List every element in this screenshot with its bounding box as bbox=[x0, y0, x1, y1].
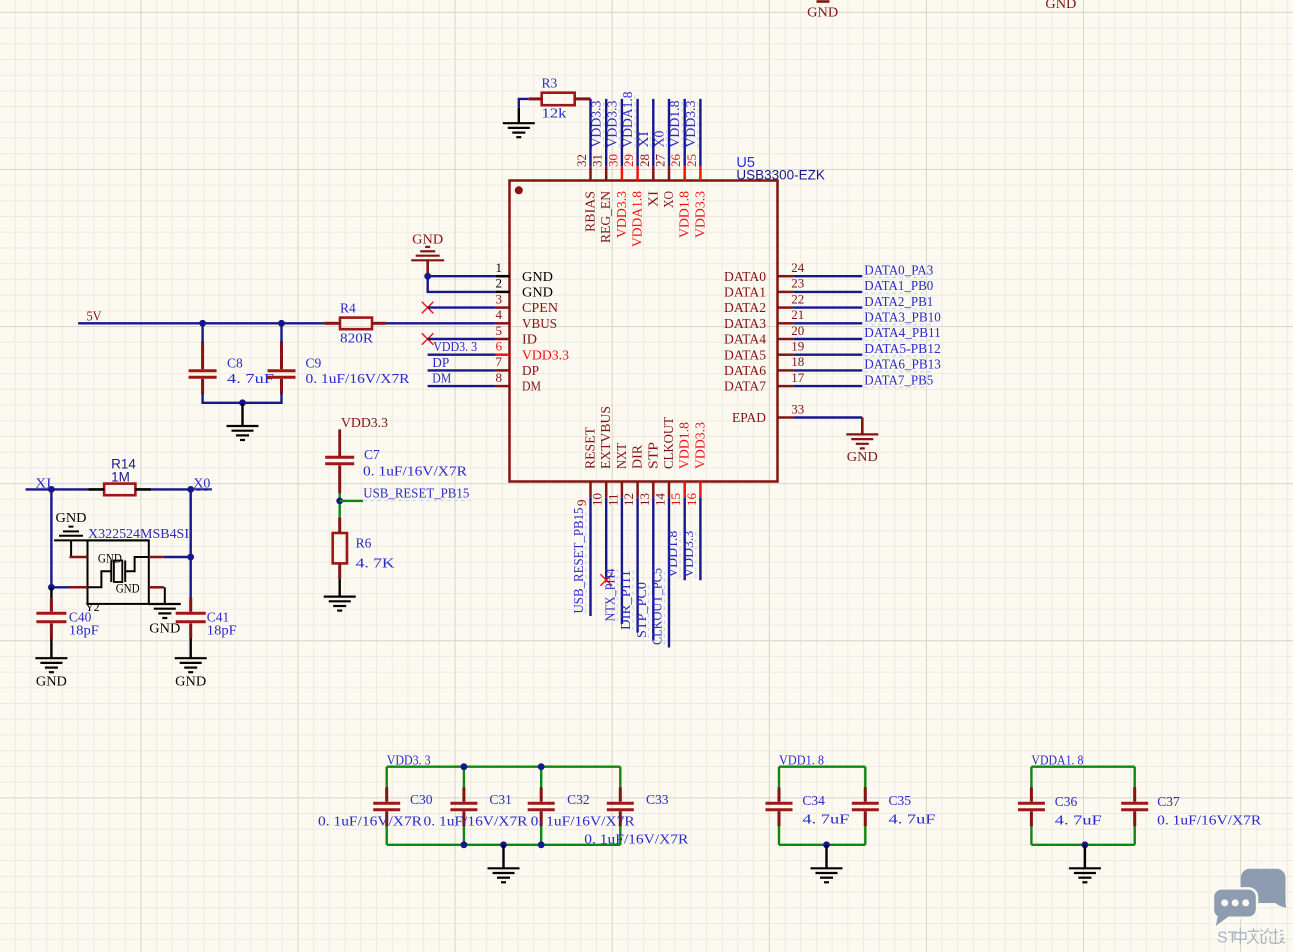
pin 28 (XI) top stub bbox=[652, 166, 655, 180]
wire VDD1.8 bank top rail (green) bbox=[779, 766, 865, 768]
svg-text:C37: C37 bbox=[1157, 794, 1180, 809]
svg-text:26: 26 bbox=[668, 154, 683, 168]
svg-text:DATA2_PB1: DATA2_PB1 bbox=[864, 294, 933, 309]
svg-text:DATA4_PB11: DATA4_PB11 bbox=[864, 325, 941, 340]
wire R4 to VBUS pin bbox=[386, 322, 496, 324]
resistor R14 bbox=[88, 484, 151, 496]
pin 16 (VDD3.3) bottom stub bbox=[699, 482, 702, 498]
svg-text:STP: STP bbox=[645, 442, 660, 469]
wire DATA5-PB12 bbox=[793, 354, 862, 356]
junction node USB_RESET_PB15 bbox=[336, 498, 343, 505]
svg-text:VDD1.8: VDD1.8 bbox=[665, 531, 680, 578]
svg-text:25: 25 bbox=[684, 154, 699, 167]
capacitor C8 bbox=[189, 342, 217, 395]
wire cap drop (green) bbox=[1030, 767, 1032, 788]
junction node ground rail bbox=[239, 399, 246, 406]
capacitor C41 bbox=[176, 598, 206, 639]
svg-text:1: 1 bbox=[496, 260, 503, 275]
svg-text:GND: GND bbox=[175, 673, 206, 688]
wire cap drop (green) bbox=[619, 767, 621, 788]
svg-text:VDD3.3: VDD3.3 bbox=[692, 422, 707, 469]
svg-text:2: 2 bbox=[496, 276, 503, 291]
svg-text:GND: GND bbox=[522, 270, 553, 285]
crystal Y2 X322524MSB4SI bbox=[54, 540, 164, 604]
pin 14 (CLKOUT) bottom stub bbox=[668, 482, 671, 498]
svg-text:12k: 12k bbox=[542, 106, 567, 121]
svg-text:DATA0_PA3: DATA0_PA3 bbox=[864, 262, 933, 277]
wire crystal case to ground (black) bbox=[164, 587, 166, 604]
capacitor C37 bbox=[1121, 787, 1148, 826]
wire ground stem (black) bbox=[241, 403, 243, 426]
svg-text:3: 3 bbox=[496, 291, 503, 306]
svg-text:6: 6 bbox=[496, 339, 503, 354]
svg-text:GND: GND bbox=[98, 552, 122, 566]
svg-text:17: 17 bbox=[791, 370, 805, 385]
no-connect X on pin 3 bbox=[422, 302, 434, 314]
svg-text:DIR_PI11: DIR_PI11 bbox=[618, 570, 633, 630]
resistor R4 bbox=[324, 318, 386, 330]
svg-text:XI: XI bbox=[645, 190, 660, 207]
capacitor C31 bbox=[450, 787, 477, 826]
pin 19 (DATA5) right stub bbox=[778, 353, 794, 356]
svg-text:5: 5 bbox=[496, 323, 503, 338]
ground power port GND (top, cut off) bbox=[807, 2, 838, 20]
ground below C41 bbox=[175, 658, 207, 672]
capacitor C30 bbox=[373, 787, 400, 826]
ground below C8 C9 bbox=[227, 426, 259, 440]
wire EPAD to ground bbox=[793, 416, 862, 418]
svg-text:DATA3_PB10: DATA3_PB10 bbox=[864, 310, 941, 325]
wire XI bbox=[26, 488, 89, 490]
pin 15 (VDD1.8) bottom stub bbox=[683, 482, 686, 498]
wire pin 29 vertical bbox=[636, 99, 638, 166]
junction node XI bbox=[48, 486, 55, 493]
ground VDD3.3 bank bank bbox=[488, 868, 520, 882]
capacitor C33 bbox=[607, 787, 634, 826]
svg-text:5V: 5V bbox=[87, 308, 102, 323]
ground below R6 bbox=[324, 597, 356, 611]
svg-text:4. 7K: 4. 7K bbox=[356, 556, 395, 571]
junction node XI bottom bbox=[48, 584, 55, 591]
wire DATA7_PB5 bbox=[793, 385, 862, 387]
svg-text:DATA6_PB13: DATA6_PB13 bbox=[864, 357, 941, 372]
wire XO vertical bbox=[189, 489, 191, 597]
svg-text:C9: C9 bbox=[306, 355, 322, 370]
wire XI vertical bbox=[50, 489, 52, 587]
wire CPEN pin 3 bbox=[428, 306, 496, 308]
capacitor C9 bbox=[268, 342, 296, 395]
svg-text:14: 14 bbox=[653, 493, 668, 507]
svg-text:24: 24 bbox=[791, 260, 805, 275]
svg-text:DATA3: DATA3 bbox=[724, 317, 766, 332]
svg-text:0. 1uF/16V/X7R: 0. 1uF/16V/X7R bbox=[424, 814, 528, 829]
pin 13 (STP) bottom stub bbox=[652, 482, 655, 498]
pin 3 (CPEN) left stub bbox=[496, 306, 510, 309]
wire 5V to C9 bbox=[280, 323, 282, 342]
junction node bottom rail bbox=[823, 841, 830, 848]
svg-text:DATA7_PB5: DATA7_PB5 bbox=[864, 372, 933, 387]
svg-text:GND: GND bbox=[116, 581, 140, 595]
capacitor C36 bbox=[1018, 787, 1045, 826]
svg-text:DATA5: DATA5 bbox=[724, 348, 766, 363]
svg-text:CPEN: CPEN bbox=[522, 301, 558, 316]
svg-text:11: 11 bbox=[605, 493, 620, 506]
wire pin 13 vertical bbox=[652, 497, 654, 640]
wire cap drop (green) bbox=[778, 767, 780, 788]
junction node bottom rail bbox=[461, 841, 468, 848]
wire C40 to ground (black) bbox=[50, 639, 52, 659]
wire 5V rail bbox=[78, 322, 324, 324]
pin 11 (NXT) bottom stub bbox=[621, 482, 624, 498]
wire ground drop (black) bbox=[518, 108, 520, 123]
wire EPAD ground drop bbox=[861, 418, 864, 435]
svg-text:DATA6: DATA6 bbox=[724, 364, 766, 379]
wire pin 10 vertical bbox=[605, 497, 607, 580]
wire DATA1_PB0 bbox=[793, 291, 862, 293]
svg-text:C36: C36 bbox=[1055, 794, 1078, 809]
svg-text:GND: GND bbox=[56, 510, 87, 525]
svg-text:23: 23 bbox=[791, 276, 804, 291]
wire VDDA1.8 bank ground stem (black) bbox=[1084, 845, 1086, 869]
svg-text:NXT: NXT bbox=[614, 442, 629, 469]
svg-text:VBUS: VBUS bbox=[522, 317, 557, 332]
svg-text:ID: ID bbox=[522, 333, 537, 348]
capacitor C7 bbox=[325, 457, 354, 493]
power port VDD3.3 bbox=[340, 415, 389, 456]
wire cap drop (green) bbox=[463, 767, 465, 788]
ground VDD1.8 bank bank bbox=[811, 868, 843, 882]
svg-text:18pF: 18pF bbox=[69, 622, 100, 637]
wire DATA6_PB13 bbox=[793, 369, 862, 371]
svg-text:USB_RESET_PB15: USB_RESET_PB15 bbox=[571, 507, 586, 613]
svg-text:DATA4: DATA4 bbox=[724, 333, 766, 348]
pin 33 (EPAD) stub bbox=[778, 416, 794, 419]
wire pin 25 vertical bbox=[699, 99, 701, 166]
svg-text:VDD3.3: VDD3.3 bbox=[522, 348, 569, 363]
svg-text:VDDA1.8: VDDA1.8 bbox=[630, 191, 645, 247]
svg-text:DATA1: DATA1 bbox=[724, 286, 766, 301]
junction node top rail bbox=[538, 763, 545, 770]
wire pin 28 vertical bbox=[652, 99, 654, 166]
svg-text:X0: X0 bbox=[652, 130, 667, 147]
svg-text:C7: C7 bbox=[364, 447, 380, 462]
pin 9 (RESET) bottom stub bbox=[589, 482, 592, 498]
svg-text:DATA1_PB0: DATA1_PB0 bbox=[864, 278, 933, 293]
svg-text:RESET: RESET bbox=[583, 426, 598, 469]
svg-text:1M: 1M bbox=[111, 469, 130, 484]
wire to pin 1 bbox=[428, 275, 496, 277]
wire VDD3.3 pin 6 bbox=[428, 354, 496, 356]
svg-text:18: 18 bbox=[791, 354, 804, 369]
svg-text:VDD3. 3: VDD3. 3 bbox=[387, 752, 431, 767]
wire ID pin 5 bbox=[428, 338, 496, 340]
svg-text:C35: C35 bbox=[889, 793, 912, 808]
svg-text:33: 33 bbox=[791, 401, 804, 416]
svg-text:R4: R4 bbox=[340, 300, 356, 315]
svg-text:4. 7uF: 4. 7uF bbox=[889, 812, 937, 827]
wire C8 C9 ground rail bbox=[203, 393, 282, 403]
wire cap drop (green) bbox=[540, 767, 542, 788]
pin 2 (GND) left stub bbox=[496, 291, 510, 294]
wire USB_RESET_PB15 (green) bbox=[339, 493, 341, 517]
svg-text:19: 19 bbox=[791, 339, 804, 354]
junction node XO crystal bbox=[187, 554, 194, 561]
svg-text:8: 8 bbox=[496, 370, 503, 385]
svg-text:STP_PC0: STP_PC0 bbox=[634, 582, 649, 638]
svg-text:X322524MSB4SI: X322524MSB4SI bbox=[88, 526, 190, 541]
svg-text:9: 9 bbox=[574, 500, 589, 507]
svg-text:DM: DM bbox=[522, 380, 541, 395]
svg-text:VDDA1.8: VDDA1.8 bbox=[620, 91, 635, 147]
svg-text:31: 31 bbox=[590, 154, 605, 167]
svg-text:USB_RESET_PB15: USB_RESET_PB15 bbox=[363, 485, 469, 500]
capacitor C35 bbox=[852, 787, 879, 826]
pin 18 (DATA6) right stub bbox=[778, 369, 794, 372]
junction node bottom rail bbox=[1082, 841, 1089, 848]
no-connect X on pin 10 bbox=[600, 574, 612, 586]
junction node at C8 bbox=[199, 320, 206, 327]
wire C41 to ground (black) bbox=[189, 639, 191, 659]
svg-text:DIR: DIR bbox=[630, 445, 645, 469]
svg-text:VDD1. 8: VDD1. 8 bbox=[779, 752, 824, 767]
svg-text:C33: C33 bbox=[646, 792, 669, 807]
svg-text:0. 1uF/16V/X7R: 0. 1uF/16V/X7R bbox=[306, 371, 410, 386]
svg-text:0. 1uF/16V/X7R: 0. 1uF/16V/X7R bbox=[318, 814, 422, 829]
wire pin 11 vertical bbox=[621, 497, 623, 624]
wire XI to crystal bbox=[51, 586, 69, 588]
wire pin 26 vertical bbox=[684, 99, 686, 166]
svg-text:13: 13 bbox=[637, 493, 652, 506]
svg-text:XO: XO bbox=[661, 191, 676, 208]
svg-text:32: 32 bbox=[574, 154, 589, 167]
svg-text:VDD3.3: VDD3.3 bbox=[681, 531, 696, 578]
svg-text:30: 30 bbox=[605, 154, 620, 167]
svg-text:NTX_PH4: NTX_PH4 bbox=[602, 568, 617, 621]
svg-text:20: 20 bbox=[791, 323, 804, 338]
ground VDDA1.8 bank bank bbox=[1069, 868, 1101, 882]
wire DP pin 7 bbox=[428, 369, 496, 371]
pin 26 (VDD1.8) top stub bbox=[683, 166, 686, 180]
wire pin 30 vertical bbox=[621, 99, 623, 166]
wire pin 32 vertical bbox=[589, 99, 591, 166]
svg-text:GND: GND bbox=[412, 232, 443, 247]
wire pin 27 vertical bbox=[668, 99, 670, 166]
pin 27 (XO) top stub bbox=[668, 166, 671, 180]
svg-text:12: 12 bbox=[621, 493, 636, 506]
svg-text:XI: XI bbox=[636, 131, 651, 148]
svg-text:VDD3. 3: VDD3. 3 bbox=[433, 339, 477, 354]
pin 8 (DM) left stub bbox=[496, 385, 510, 388]
svg-text:C32: C32 bbox=[567, 792, 590, 807]
svg-text:18pF: 18pF bbox=[207, 622, 238, 637]
svg-text:VDD3.3: VDD3.3 bbox=[614, 191, 629, 238]
svg-text:USB3300-EZK: USB3300-EZK bbox=[736, 168, 825, 183]
svg-text:4. 7uF: 4. 7uF bbox=[1055, 813, 1103, 828]
wire cap drop (green) bbox=[864, 767, 866, 788]
svg-text:GND: GND bbox=[522, 286, 553, 301]
pin 20 (DATA4) right stub bbox=[778, 338, 794, 341]
svg-text:EPAD: EPAD bbox=[732, 411, 766, 426]
svg-text:820R: 820R bbox=[340, 331, 373, 346]
wire pin 16 vertical bbox=[699, 497, 701, 580]
ground power port GND above pins 1-2 bbox=[411, 232, 444, 277]
svg-text:28: 28 bbox=[637, 154, 652, 167]
svg-text:0. 1uF/16V/X7R: 0. 1uF/16V/X7R bbox=[584, 832, 688, 847]
capacitor C32 bbox=[528, 787, 555, 826]
capacitor C34 bbox=[766, 787, 793, 826]
svg-text:VDD3.3: VDD3.3 bbox=[341, 415, 388, 430]
wire VDD3.3 bank bottom rail (green) bbox=[387, 844, 621, 846]
svg-text:VDD1.8: VDD1.8 bbox=[667, 100, 682, 147]
wire R6 to ground (black) bbox=[339, 579, 341, 597]
svg-text:VDD3.3: VDD3.3 bbox=[692, 191, 707, 238]
svg-text:VDD3.3: VDD3.3 bbox=[683, 100, 698, 147]
svg-text:DATA5-PB12: DATA5-PB12 bbox=[864, 341, 941, 356]
wire R3 to ground corner bbox=[519, 99, 529, 108]
pin 23 (DATA1) right stub bbox=[778, 291, 794, 294]
svg-text:VDD1.8: VDD1.8 bbox=[677, 422, 692, 469]
svg-text:DATA0: DATA0 bbox=[724, 270, 766, 285]
pin 5 (ID) left stub bbox=[496, 338, 510, 341]
svg-text:REG_EN: REG_EN bbox=[598, 191, 613, 243]
pin 12 (DIR) bottom stub bbox=[636, 482, 639, 498]
svg-text:4: 4 bbox=[496, 307, 503, 322]
pin 7 (DP) left stub bbox=[496, 369, 510, 372]
svg-text:CLKOUT_PC5: CLKOUT_PC5 bbox=[650, 568, 665, 645]
svg-text:15: 15 bbox=[668, 493, 683, 506]
svg-text:RBIAS: RBIAS bbox=[583, 191, 598, 232]
junction node XO bbox=[187, 486, 194, 493]
svg-text:GND: GND bbox=[36, 673, 67, 688]
svg-text:GND: GND bbox=[1045, 0, 1076, 11]
wire pin 14 vertical bbox=[668, 497, 670, 647]
pin 4 (VBUS) left stub bbox=[496, 322, 510, 325]
svg-text:VDD3.3: VDD3.3 bbox=[589, 100, 604, 147]
svg-text:VDD1.8: VDD1.8 bbox=[677, 191, 692, 238]
svg-text:CLKOUT: CLKOUT bbox=[661, 416, 676, 469]
junction node at C9 bbox=[278, 320, 285, 327]
svg-text:DP: DP bbox=[522, 364, 539, 379]
wire VDD3.3 bank top rail (green) bbox=[387, 766, 621, 768]
junction node pins 1-2 bbox=[424, 273, 431, 280]
svg-text:21: 21 bbox=[791, 307, 804, 322]
svg-text:22: 22 bbox=[791, 291, 804, 306]
pin 29 (VDDA1.8) top stub bbox=[636, 166, 639, 180]
wire pin 12 vertical bbox=[636, 497, 638, 632]
wire VDDA1.8 bank bottom rail (green) bbox=[1031, 844, 1134, 846]
resistor R6 bbox=[333, 517, 347, 579]
wire pin 31 vertical bbox=[605, 99, 607, 166]
svg-text:7: 7 bbox=[496, 354, 503, 369]
ground crystal case bbox=[149, 604, 181, 618]
resistor R3 bbox=[529, 93, 591, 106]
pin 24 (DATA0) right stub bbox=[778, 275, 794, 278]
pin 22 (DATA2) right stub bbox=[778, 306, 794, 309]
wire DATA0_PA3 bbox=[793, 275, 862, 277]
svg-text:4. 7uF: 4. 7uF bbox=[802, 812, 850, 827]
pin 6 (VDD3.3) left stub bbox=[496, 353, 510, 356]
svg-text:DP: DP bbox=[432, 355, 449, 370]
svg-text:27: 27 bbox=[653, 154, 668, 168]
svg-text:R6: R6 bbox=[356, 535, 372, 550]
svg-text:16: 16 bbox=[684, 493, 699, 507]
junction node bottom rail bbox=[500, 841, 507, 848]
svg-text:DATA7: DATA7 bbox=[724, 380, 766, 395]
no-connect X on pin 5 bbox=[422, 333, 434, 345]
svg-text:GND: GND bbox=[807, 5, 838, 20]
wire cap drop (green) bbox=[386, 767, 388, 788]
wire VDD3.3 bank ground stem (black) bbox=[502, 845, 504, 869]
wire to pin 2 bbox=[428, 276, 496, 292]
wire VDD1.8 bank bottom rail (green) bbox=[779, 844, 865, 846]
wire VDDA1.8 bank top rail (green) bbox=[1031, 766, 1134, 768]
wire crystal to XO bbox=[164, 556, 191, 558]
watermark logo chat bubbles bbox=[1214, 869, 1286, 926]
op-amp/IC U5 USB3300-EZK body bbox=[510, 181, 778, 482]
wire R14 to XO bbox=[151, 488, 212, 490]
wire pin 9 vertical bbox=[589, 497, 591, 616]
svg-text:X0: X0 bbox=[193, 475, 210, 490]
wire DM pin 8 bbox=[428, 385, 496, 387]
pin 25 (VDD3.3) top stub bbox=[699, 166, 702, 180]
svg-text:VDDA1. 8: VDDA1. 8 bbox=[1031, 752, 1083, 767]
ground below R3 bbox=[503, 123, 535, 137]
pin 21 (DATA3) right stub bbox=[778, 322, 794, 325]
ground below C40 bbox=[35, 658, 67, 672]
svg-text:0. 1uF/16V/X7R: 0. 1uF/16V/X7R bbox=[363, 464, 467, 479]
svg-text:R3: R3 bbox=[542, 76, 558, 91]
pin 1 (GND) left stub bbox=[496, 275, 510, 278]
wire pin 15 vertical bbox=[684, 497, 686, 580]
pin 32 (RBIAS) top stub bbox=[589, 166, 592, 180]
svg-text:C34: C34 bbox=[802, 793, 825, 808]
pin 30 (VDD3.3) top stub bbox=[621, 166, 624, 180]
svg-text:VDD3.3: VDD3.3 bbox=[604, 100, 619, 147]
svg-text:C30: C30 bbox=[410, 792, 433, 807]
ground at EPAD bbox=[846, 434, 878, 448]
wire VDD1.8 bank ground stem (black) bbox=[825, 845, 827, 869]
wire cap drop (green) bbox=[1133, 767, 1135, 788]
svg-text:EXTVBUS: EXTVBUS bbox=[598, 406, 613, 469]
watermark text ST Chinese forum bbox=[1217, 928, 1285, 946]
svg-text:DM: DM bbox=[432, 371, 451, 386]
pin 31 (REG_EN) top stub bbox=[605, 166, 608, 180]
junction node top rail bbox=[461, 763, 468, 770]
svg-text:29: 29 bbox=[621, 154, 636, 167]
wire 5V to C8 bbox=[201, 323, 203, 342]
pin 10 (EXTVBUS) bottom stub bbox=[605, 482, 608, 498]
capacitor C40 bbox=[36, 587, 66, 638]
wire DATA4_PB11 bbox=[793, 338, 862, 340]
svg-text:DATA2: DATA2 bbox=[724, 301, 766, 316]
svg-text:GND: GND bbox=[847, 449, 878, 464]
wire DATA2_PB1 bbox=[793, 306, 862, 308]
wire USB_RESET_PB15 branch (green) bbox=[340, 500, 363, 502]
pin 17 (DATA7) right stub bbox=[778, 385, 794, 388]
svg-text:0. 1uF/16V/X7R: 0. 1uF/16V/X7R bbox=[1157, 813, 1261, 828]
svg-text:10: 10 bbox=[590, 493, 605, 506]
ground power port GND (top right, cut off) bbox=[1045, 0, 1076, 11]
ground power port at crystal top bbox=[56, 510, 87, 536]
svg-text:C31: C31 bbox=[489, 792, 512, 807]
svg-text:C8: C8 bbox=[227, 355, 243, 370]
wire DATA3_PB10 bbox=[793, 322, 862, 324]
junction node bottom rail bbox=[538, 841, 545, 848]
